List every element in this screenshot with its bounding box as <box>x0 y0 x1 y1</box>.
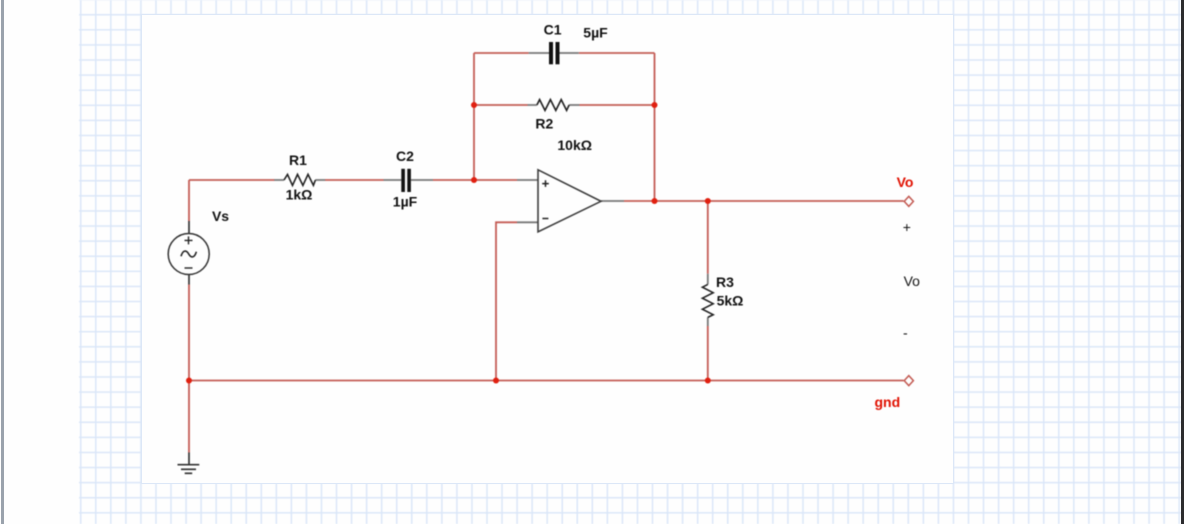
svg-text:+: + <box>903 219 911 235</box>
svg-text:10kΩ: 10kΩ <box>557 137 592 153</box>
svg-text:5µF: 5µF <box>583 24 608 40</box>
svg-text:R3: R3 <box>716 274 734 290</box>
svg-text:Vs: Vs <box>212 208 229 224</box>
svg-text:Vo: Vo <box>897 174 914 190</box>
svg-text:1µF: 1µF <box>393 193 418 209</box>
svg-text:Vo: Vo <box>904 273 921 289</box>
svg-text:R1: R1 <box>289 152 307 168</box>
svg-text:gnd: gnd <box>874 394 900 410</box>
svg-text:C2: C2 <box>396 148 414 164</box>
svg-text:5kΩ: 5kΩ <box>717 293 744 309</box>
svg-text:1kΩ: 1kΩ <box>286 187 313 203</box>
svg-text:R2: R2 <box>535 116 553 132</box>
svg-text:-: - <box>903 325 908 341</box>
svg-text:C1: C1 <box>544 21 562 37</box>
